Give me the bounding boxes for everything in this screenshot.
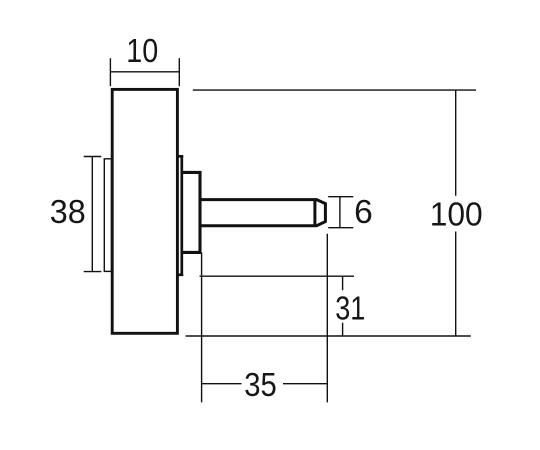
- dimension 6 top extension: [328, 196, 353, 198]
- shaft: [200, 198, 325, 227]
- shaft end extension line: [326, 234, 328, 403]
- dimension 10 extension line left: [109, 58, 111, 86]
- dimension 35 line: [202, 383, 328, 385]
- dimension 6 bottom extension: [328, 227, 353, 229]
- dimension 6 line: [339, 197, 341, 228]
- bushing face extension line: [201, 252, 203, 402]
- rear strip plate: [177, 156, 183, 274]
- svg-text:31: 31: [335, 291, 365, 328]
- dimension 100 line: [455, 90, 457, 336]
- bushing: [182, 172, 200, 252]
- svg-text:38: 38: [50, 194, 86, 231]
- svg-text:6: 6: [354, 194, 373, 231]
- svg-text:35: 35: [244, 367, 277, 404]
- dimension 100 top extension: [193, 89, 476, 91]
- reference line for 31: [200, 275, 355, 277]
- dimension 100 bottom extension: [186, 335, 471, 337]
- dimension 38 bottom tick: [84, 271, 102, 273]
- dimension 10 extension line right: [178, 58, 180, 86]
- dimension 31 line: [342, 276, 344, 336]
- knob body: [112, 89, 177, 333]
- dimension 38 line: [91, 157, 93, 272]
- svg-text:100: 100: [430, 197, 483, 234]
- dimension 10 line: [110, 71, 179, 73]
- svg-text:10: 10: [126, 33, 158, 70]
- dimension 38 top tick: [84, 156, 102, 158]
- front flange strip: [104, 159, 111, 272]
